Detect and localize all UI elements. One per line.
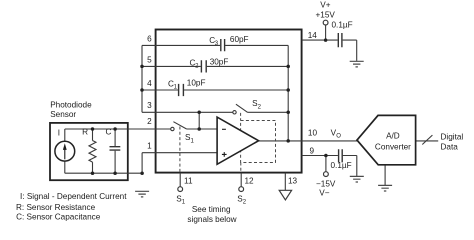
wire left bus (pins 6-3) — [141, 45, 143, 112]
wire sensor cap stubs — [114, 129, 116, 173]
wire pin 12 stub — [240, 173, 242, 187]
svg-text:I: I — [58, 129, 60, 138]
svg-text:11: 11 — [184, 176, 193, 185]
sensor capacitor C plates — [110, 147, 121, 150]
ground (A/D) — [378, 185, 392, 191]
svg-text:3: 3 — [147, 101, 152, 110]
svg-text:Digital: Digital — [441, 132, 464, 141]
dashed control line to pin 12 — [240, 163, 242, 173]
switch S2 contact circle — [233, 111, 236, 114]
svg-text:0.1µF: 0.1µF — [332, 21, 353, 30]
svg-text:5: 5 — [147, 56, 152, 65]
terminal S1 circle — [178, 187, 183, 192]
wire pin 6 / C3 line — [142, 44, 288, 46]
svg-text:14: 14 — [308, 31, 318, 40]
current source I circle — [55, 141, 75, 161]
svg-text:A/D: A/D — [386, 132, 400, 141]
ground (photodiode) — [135, 191, 149, 197]
svg-text:V+: V+ — [320, 1, 330, 10]
svg-text:O: O — [336, 134, 341, 140]
resistor R zigzag — [89, 141, 96, 163]
terminal V+ circle — [323, 20, 328, 25]
capacitor C1 plates — [179, 84, 184, 96]
terminal -15V circle — [324, 172, 329, 177]
capacitor 0.1uF top plates — [338, 33, 342, 47]
svg-text:12: 12 — [245, 176, 255, 185]
svg-text:V−: V− — [319, 189, 329, 198]
svg-text:2: 2 — [147, 117, 152, 126]
svg-text:R: R — [82, 127, 88, 136]
wire digital data output — [416, 140, 439, 142]
svg-text:See timing: See timing — [192, 205, 231, 214]
svg-text:0.1µF: 0.1µF — [331, 161, 352, 170]
photodiode sensor box — [50, 123, 128, 180]
svg-text:Data: Data — [441, 143, 459, 152]
ground pin 13 triangle — [279, 190, 291, 200]
bus slash — [422, 135, 432, 144]
capacitor C2 plates — [201, 60, 206, 72]
svg-text:R: Sensor Resistance: R: Sensor Resistance — [16, 203, 96, 212]
svg-text:C: C — [105, 127, 111, 136]
svg-text:10pF: 10pF — [187, 79, 206, 88]
wire sensor bottom — [65, 172, 142, 174]
dashed control stub S2 — [240, 113, 242, 121]
wire op-amp output line — [259, 140, 357, 142]
svg-text:I: Signal - Dependent Current: I: Signal - Dependent Current — [20, 192, 127, 201]
wire pin 3 / S2 line — [142, 111, 288, 113]
op-amp minus input — [222, 128, 226, 130]
wire A/D ground stub — [384, 165, 386, 186]
dashed control line S1 to pin 11 — [179, 127, 181, 173]
svg-text:+15V: +15V — [316, 11, 336, 20]
svg-text:Converter: Converter — [375, 143, 411, 152]
current source arrow — [64, 150, 66, 160]
switch S2 blade — [236, 104, 248, 112]
op-amp IC U1 outline box — [156, 30, 302, 173]
wire pin 11 stub — [179, 173, 181, 187]
wire pin 13 stub — [284, 173, 286, 191]
switch S1 blade — [173, 122, 186, 129]
capacitor C3 plates — [221, 39, 225, 51]
svg-text:30pF: 30pF — [210, 57, 229, 66]
wire pin 14 supply line — [302, 25, 357, 61]
svg-text:60pF: 60pF — [230, 35, 249, 44]
wire current source stubs — [64, 129, 66, 173]
svg-text:13: 13 — [288, 176, 298, 185]
wire pin1-ground vertical — [141, 153, 143, 174]
dashed control rectangle — [241, 121, 276, 163]
wire pin 5 / C2 line — [142, 65, 288, 67]
A/D converter block — [357, 115, 416, 164]
wire pin 2 input line — [65, 128, 217, 130]
wire resistor stubs — [92, 129, 94, 173]
terminal S2 circle — [239, 187, 244, 192]
ground (top 0.1uF) — [350, 61, 364, 67]
svg-text:6: 6 — [147, 34, 152, 43]
wire pin 4 / C1 line — [142, 89, 288, 91]
op-amp A1 triangle — [217, 117, 259, 164]
switch S1 contact circle — [171, 127, 174, 130]
capacitor 0.1uF bottom plates — [339, 149, 343, 162]
svg-text:Sensor: Sensor — [50, 110, 76, 119]
svg-text:10: 10 — [308, 128, 318, 137]
svg-text:Photodiode: Photodiode — [50, 101, 92, 110]
wire node tie vertical — [198, 112, 200, 129]
svg-text:C: Sensor Capacitance: C: Sensor Capacitance — [16, 213, 101, 222]
wire pin 1 line — [142, 152, 217, 154]
op-amp plus input — [222, 152, 227, 157]
wire summing node vertical — [287, 45, 289, 140]
svg-text:−15V: −15V — [316, 180, 336, 189]
svg-text:signals below: signals below — [187, 215, 236, 224]
wire pin 9 line — [302, 156, 357, 177]
ground (bottom 0.1uF) — [350, 176, 364, 182]
svg-text:4: 4 — [147, 79, 152, 88]
svg-text:1: 1 — [147, 142, 152, 151]
svg-text:9: 9 — [310, 147, 315, 156]
